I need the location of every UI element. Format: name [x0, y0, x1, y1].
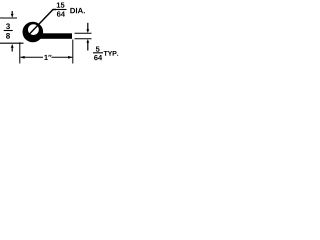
dim text 15/64 denominator — [57, 11, 65, 16]
dim 1 inch left extension line — [19, 42, 21, 63]
dim text 3/8 denominator — [6, 33, 10, 39]
dim 3/8 bottom arrow pointing up — [11, 44, 14, 48]
dim text 1 inch — [44, 55, 51, 60]
dim text DIA. — [70, 8, 85, 13]
dim text 5/64 denominator — [94, 55, 102, 60]
dim text 3/8 fraction bar — [4, 30, 13, 32]
dim 1 inch right extension line — [72, 40, 74, 64]
dim 1 inch left arrowhead — [20, 56, 24, 59]
dim text 3/8 numerator — [6, 23, 10, 29]
dim 1 inch dimension line left segment — [20, 56, 43, 58]
part: eye ring outer circle — [23, 22, 44, 43]
background — [0, 0, 120, 71]
dim text 5/64 fraction bar — [93, 52, 103, 54]
dim 3/8 top extension line — [0, 17, 17, 19]
dim 5/64 top arrow pointing down — [87, 23, 89, 31]
dim 5/64 bottom arrow pointing up — [86, 39, 89, 43]
dim 1 inch dimension line right segment — [52, 56, 73, 58]
dim 1 inch right arrowhead — [68, 56, 72, 59]
dim 3/8 top arrow pointing down — [11, 11, 13, 16]
part: flat bar — [40, 33, 72, 39]
leader line for 15/64 DIA. callout — [29, 10, 57, 36]
dim text TYP. — [104, 51, 119, 56]
dim 3/8 bottom extension line — [0, 42, 24, 44]
dim text 15/64 fraction bar — [56, 9, 67, 11]
dim 5/64 top extension line — [75, 32, 92, 34]
dim 5/64 bottom extension line — [75, 38, 92, 40]
dim text 15/64 numerator — [57, 2, 65, 7]
dim text 5/64 numerator — [96, 46, 100, 51]
part: eye hole — [28, 24, 39, 35]
